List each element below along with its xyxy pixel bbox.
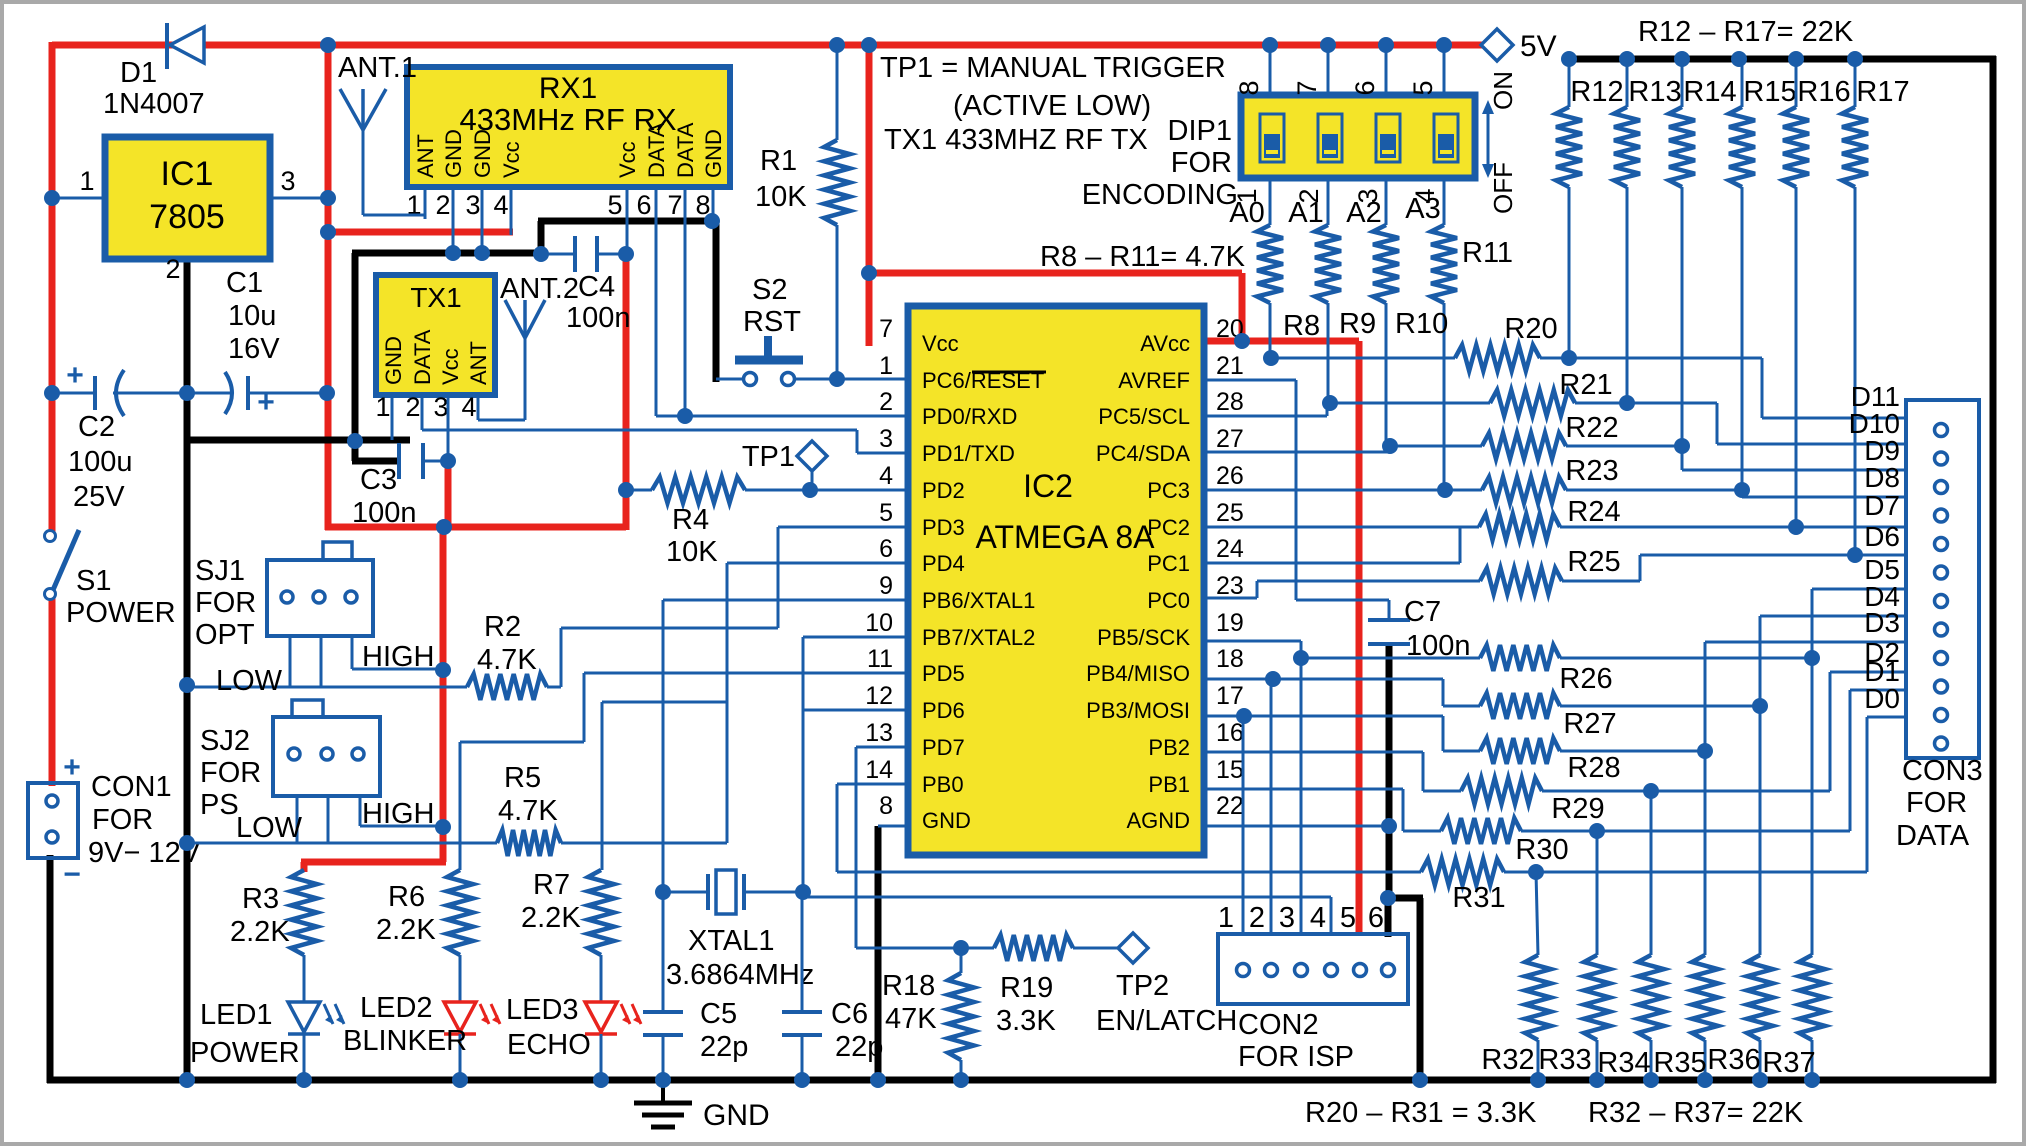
svg-text:2.2K: 2.2K [230,916,290,948]
svg-text:C2: C2 [78,411,115,443]
svg-text:PB5/SCK: PB5/SCK [1097,625,1190,650]
svg-text:ON: ON [1488,71,1518,110]
svg-text:3.6864MHz: 3.6864MHz [666,959,814,991]
svg-text:R17: R17 [1856,76,1909,108]
svg-text:DATA: DATA [644,122,669,178]
svg-text:R22: R22 [1565,412,1618,444]
svg-text:Vcc: Vcc [615,141,640,178]
svg-text:ATMEGA 8A: ATMEGA 8A [975,519,1155,555]
svg-text:XTAL1: XTAL1 [688,925,775,957]
svg-text:23: 23 [1216,572,1244,600]
svg-text:R8 – R11= 4.7K: R8 – R11= 4.7K [1040,241,1246,273]
svg-text:R30: R30 [1515,834,1568,866]
svg-text:25V: 25V [73,481,125,513]
svg-text:19: 19 [1216,609,1244,637]
svg-text:D8: D8 [1864,462,1900,493]
svg-text:21: 21 [1216,352,1244,380]
svg-text:6: 6 [1350,80,1380,95]
svg-text:LOW: LOW [236,812,303,844]
svg-text:A2: A2 [1346,197,1381,229]
svg-text:R26: R26 [1559,663,1612,695]
svg-text:R36: R36 [1707,1044,1760,1076]
svg-text:10K: 10K [755,181,807,213]
svg-text:Vcc: Vcc [438,348,463,385]
svg-text:PD4: PD4 [922,551,965,576]
svg-text:D3: D3 [1864,607,1900,638]
svg-text:R10: R10 [1395,308,1448,340]
svg-text:R9: R9 [1339,308,1376,340]
svg-text:FOR: FOR [200,757,261,789]
svg-text:R11: R11 [1462,237,1513,269]
svg-text:7: 7 [879,315,893,343]
svg-text:7: 7 [1292,80,1322,95]
svg-text:PD0/RXD: PD0/RXD [922,404,1017,429]
svg-text:OFF: OFF [1488,162,1518,214]
svg-text:R18: R18 [882,970,935,1002]
svg-text:6: 6 [879,535,893,563]
svg-text:22: 22 [1216,792,1244,820]
svg-text:TP2: TP2 [1116,970,1169,1002]
svg-text:R6: R6 [388,881,425,913]
svg-text:ANT.1: ANT.1 [338,52,417,84]
svg-text:IC2: IC2 [1023,468,1073,504]
svg-text:R7: R7 [533,869,570,901]
svg-text:24: 24 [1216,535,1244,563]
svg-text:15: 15 [1216,756,1244,784]
svg-text:PB6/XTAL1: PB6/XTAL1 [922,588,1035,613]
svg-text:GND: GND [703,1099,770,1132]
svg-text:GND: GND [922,808,971,833]
svg-text:4.7K: 4.7K [477,644,537,676]
svg-text:9: 9 [879,572,893,600]
svg-text:ANT: ANT [413,134,438,178]
svg-text:LED2: LED2 [360,992,433,1024]
svg-text:RST: RST [743,306,801,338]
svg-text:IC1: IC1 [161,155,214,193]
svg-text:PD7: PD7 [922,735,965,760]
svg-text:3: 3 [280,166,295,196]
svg-text:R1: R1 [760,145,797,177]
svg-text:Vcc: Vcc [922,331,959,356]
svg-text:PB7/XTAL2: PB7/XTAL2 [922,625,1035,650]
svg-text:2.2K: 2.2K [521,902,581,934]
svg-text:R27: R27 [1563,708,1616,740]
svg-text:2: 2 [165,254,180,284]
svg-text:ANT: ANT [466,341,491,385]
svg-text:TP1 = MANUAL TRIGGER: TP1 = MANUAL TRIGGER [880,52,1226,84]
svg-text:16V: 16V [228,333,280,365]
svg-text:TX1 433MHZ RF TX: TX1 433MHZ RF TX [884,124,1148,156]
svg-text:POWER: POWER [190,1037,300,1069]
svg-text:C6: C6 [831,998,868,1030]
svg-text:R13: R13 [1628,76,1681,108]
svg-text:25: 25 [1216,499,1244,527]
svg-text:5: 5 [1408,80,1438,95]
svg-text:17: 17 [1216,682,1244,710]
svg-text:SJ1: SJ1 [195,555,245,587]
svg-text:−: − [63,858,81,891]
svg-text:26: 26 [1216,462,1244,490]
svg-text:ENCODING: ENCODING [1082,179,1238,211]
svg-text:R20: R20 [1504,313,1557,345]
svg-text:CON1: CON1 [91,771,172,803]
svg-text:100u: 100u [68,446,133,478]
svg-text:TP1: TP1 [742,441,795,473]
svg-text:PD3: PD3 [922,515,965,540]
svg-text:3: 3 [879,425,893,453]
svg-text:3: 3 [1279,902,1295,934]
svg-text:R12 – R17= 22K: R12 – R17= 22K [1638,16,1854,48]
svg-text:FOR ISP: FOR ISP [1238,1041,1354,1073]
svg-text:16: 16 [1216,719,1244,747]
svg-text:PC0: PC0 [1147,588,1190,613]
svg-text:4: 4 [1310,902,1326,934]
svg-text:FOR: FOR [1906,787,1967,819]
svg-text:47K: 47K [885,1003,937,1035]
svg-text:PB2: PB2 [1148,735,1190,760]
svg-text:R21: R21 [1559,369,1612,401]
svg-text:(ACTIVE LOW): (ACTIVE LOW) [953,90,1151,122]
svg-text:11: 11 [867,645,893,673]
svg-text:BLINKER: BLINKER [343,1025,467,1057]
svg-text:1N4007: 1N4007 [103,88,205,120]
svg-text:PD2: PD2 [922,478,965,503]
svg-text:1: 1 [79,166,94,196]
svg-text:14: 14 [865,756,893,784]
svg-text:GND: GND [441,129,466,178]
svg-text:5: 5 [1340,902,1356,934]
svg-text:AVcc: AVcc [1140,331,1190,356]
svg-text:PC5/SCL: PC5/SCL [1098,404,1190,429]
svg-text:CON3: CON3 [1902,755,1983,787]
svg-text:PC4/SDA: PC4/SDA [1096,441,1190,466]
svg-text:S1: S1 [76,565,111,597]
svg-text:3.3K: 3.3K [996,1005,1056,1037]
svg-text:2.2K: 2.2K [376,914,436,946]
svg-text:R16: R16 [1797,76,1850,108]
svg-text:AGND: AGND [1126,808,1190,833]
svg-text:28: 28 [1216,388,1244,416]
svg-text:LED3: LED3 [506,994,579,1026]
svg-text:RX1: RX1 [539,72,597,105]
svg-text:8: 8 [879,792,893,820]
svg-text:PB3/MOSI: PB3/MOSI [1086,698,1190,723]
svg-text:R25: R25 [1567,546,1620,578]
svg-text:R35: R35 [1653,1047,1706,1079]
svg-text:C3: C3 [360,464,397,496]
svg-text:PC2: PC2 [1147,515,1190,540]
svg-text:Vcc: Vcc [499,141,524,178]
svg-text:2: 2 [405,392,420,422]
svg-text:6: 6 [1368,902,1384,934]
svg-text:DATA: DATA [673,122,698,178]
svg-text:10u: 10u [228,300,276,332]
svg-text:AVREF: AVREF [1118,368,1190,393]
svg-text:4.7K: 4.7K [498,795,558,827]
svg-text:6: 6 [636,190,651,220]
svg-text:PC1: PC1 [1147,551,1190,576]
svg-text:100n: 100n [566,302,631,334]
svg-text:ANT.2: ANT.2 [500,273,579,305]
svg-text:3: 3 [465,190,480,220]
svg-text:R19: R19 [1000,972,1053,1004]
svg-text:2: 2 [435,190,450,220]
svg-text:S2: S2 [752,274,787,306]
svg-text:A1: A1 [1288,197,1323,229]
svg-text:27: 27 [1216,425,1244,453]
svg-text:PD5: PD5 [922,661,965,686]
svg-text:R24: R24 [1567,496,1620,528]
svg-text:PB1: PB1 [1148,772,1190,797]
svg-text:DATA: DATA [410,329,435,385]
svg-text:C4: C4 [578,271,615,303]
svg-text:4: 4 [493,190,508,220]
svg-text:R15: R15 [1743,76,1796,108]
svg-text:7: 7 [667,190,682,220]
svg-text:TX1: TX1 [410,282,461,313]
svg-text:7805: 7805 [149,198,225,236]
svg-text:FOR: FOR [195,587,256,619]
svg-text:PB4/MISO: PB4/MISO [1086,661,1190,686]
svg-text:R2: R2 [484,611,521,643]
svg-text:D0: D0 [1864,683,1900,714]
svg-text:R33: R33 [1538,1044,1591,1076]
svg-text:4: 4 [461,392,476,422]
svg-text:PS: PS [200,789,239,821]
svg-text:OPT: OPT [195,619,255,651]
svg-text:+: + [257,386,275,419]
svg-text:13: 13 [865,719,893,747]
svg-text:DATA: DATA [1896,820,1970,852]
svg-text:R32 – R37= 22K: R32 – R37= 22K [1588,1097,1804,1129]
svg-text:5V: 5V [1520,30,1557,63]
svg-text:HIGH: HIGH [362,641,435,673]
svg-text:GND: GND [701,129,726,178]
svg-text:R23: R23 [1565,455,1618,487]
svg-text:18: 18 [1216,645,1244,673]
svg-text:1: 1 [375,392,390,422]
svg-text:PD1/TXD: PD1/TXD [922,441,1015,466]
svg-text:R29: R29 [1551,793,1604,825]
svg-text:C5: C5 [700,998,737,1030]
svg-text:R8: R8 [1283,310,1320,342]
svg-text:A3: A3 [1405,193,1440,225]
svg-text:12: 12 [865,682,893,710]
svg-text:1: 1 [1218,902,1234,934]
svg-text:FOR: FOR [1171,147,1232,179]
svg-text:R31: R31 [1452,882,1505,914]
svg-text:DIP1: DIP1 [1168,115,1232,147]
svg-text:FOR: FOR [92,804,153,836]
svg-text:1: 1 [879,352,893,380]
svg-text:R34: R34 [1597,1047,1650,1079]
svg-text:22p: 22p [700,1031,748,1063]
svg-text:POWER: POWER [66,597,176,629]
svg-text:ECHO: ECHO [507,1029,591,1061]
svg-text:R28: R28 [1567,752,1620,784]
svg-text:5: 5 [879,499,893,527]
svg-text:LED1: LED1 [200,999,273,1031]
svg-text:PC3: PC3 [1147,478,1190,503]
svg-text:5: 5 [607,190,622,220]
svg-text:10K: 10K [666,536,718,568]
svg-text:R14: R14 [1683,76,1736,108]
svg-text:R5: R5 [504,762,541,794]
svg-text:PD6: PD6 [922,698,965,723]
svg-text:C7: C7 [1404,596,1441,628]
svg-text:PB0: PB0 [922,772,964,797]
svg-text:R12: R12 [1570,76,1623,108]
svg-text:GND: GND [470,129,495,178]
svg-text:R32: R32 [1481,1044,1534,1076]
svg-text:D1: D1 [120,57,157,89]
svg-text:R3: R3 [242,883,279,915]
svg-text:D7: D7 [1864,490,1900,521]
svg-text:EN/LATCH: EN/LATCH [1096,1005,1237,1037]
svg-text:3: 3 [433,392,448,422]
svg-text:4: 4 [879,462,893,490]
svg-text:LOW: LOW [216,665,283,697]
svg-text:2: 2 [1249,902,1265,934]
svg-text:R4: R4 [672,504,709,536]
svg-text:HIGH: HIGH [362,798,435,830]
svg-text:D6: D6 [1864,521,1900,552]
svg-text:C1: C1 [226,267,263,299]
svg-text:SJ2: SJ2 [200,725,250,757]
svg-text:GND: GND [381,336,406,385]
svg-text:10: 10 [865,609,893,637]
svg-text:8: 8 [1234,80,1264,95]
svg-text:2: 2 [879,388,893,416]
svg-text:22p: 22p [835,1031,883,1063]
svg-text:CON2: CON2 [1238,1009,1319,1041]
svg-text:+: + [63,751,81,784]
svg-text:+: + [66,359,84,392]
svg-text:100n: 100n [352,497,417,529]
svg-text:R20 – R31 = 3.3K: R20 – R31 = 3.3K [1305,1097,1537,1129]
svg-text:A0: A0 [1229,197,1264,229]
